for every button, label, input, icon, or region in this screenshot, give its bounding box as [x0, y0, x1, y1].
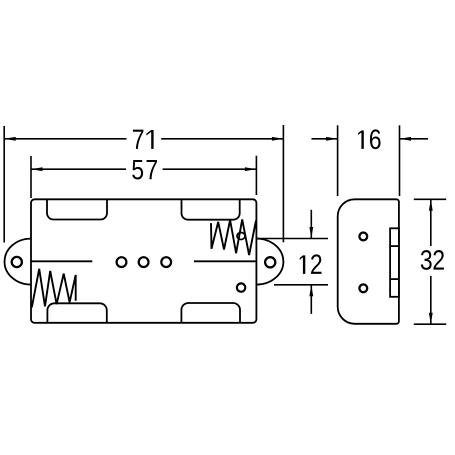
dim 32 top arrow — [429, 199, 433, 211]
dim 16 right arrow (outside) — [400, 138, 429, 140]
bottom-left battery slot — [47, 303, 106, 323]
dim 16 right extension line — [399, 125, 401, 196]
dim 32 line — [430, 199, 432, 246]
dim text 32 — [421, 250, 432, 270]
dim 71 left arrow — [4, 137, 16, 141]
dim text 57 — [132, 160, 143, 180]
dim 57 left extension line — [30, 156, 32, 198]
dim 71 right extension line — [282, 125, 284, 242]
centre hole 3 — [161, 257, 171, 267]
dim 57 line — [31, 168, 126, 170]
dim text 16 — [358, 131, 364, 149]
dim text 71 — [133, 130, 143, 149]
bottom-right battery slot — [181, 303, 240, 323]
side view lower hole — [359, 284, 367, 292]
dim 32 bottom extension line — [414, 323, 446, 325]
battery holder body (top view) — [31, 199, 256, 322]
centre separator line right segment — [194, 260, 256, 262]
dim 12 top arrow (outside, pointing down) — [310, 210, 312, 239]
dim 32 top extension line — [414, 198, 446, 200]
centre separator line left segment — [31, 260, 92, 262]
centre hole 2 — [139, 257, 149, 267]
dim 16 left extension line — [337, 125, 339, 196]
dim 57 right arrow — [245, 167, 257, 171]
dim 16 left arrow (outside) — [312, 138, 338, 140]
top-left battery slot — [47, 199, 107, 219]
strip divider lower — [390, 278, 399, 280]
right mounting tab — [256, 239, 283, 285]
side view upper hole — [359, 233, 367, 241]
right tab hole — [265, 257, 275, 267]
left mounting tab — [5, 239, 31, 285]
top-right battery slot — [182, 199, 240, 219]
dim text 12 — [300, 255, 306, 274]
small hole lower right of body — [237, 283, 245, 291]
strip divider upper — [390, 245, 399, 247]
dim 12 bottom arrow (outside, pointing up) — [310, 285, 312, 314]
dim 12 bottom extension line — [274, 284, 328, 286]
dim 32 bottom arrow — [429, 313, 433, 325]
left tab hole — [12, 257, 22, 267]
spring wire loop — [237, 233, 245, 240]
dim 57 right extension line — [255, 156, 257, 195]
side view body — [338, 199, 399, 323]
bottom-left spring — [32, 269, 76, 308]
dim 71 right arrow — [272, 137, 284, 141]
dim 71 left extension line — [3, 126, 5, 243]
side view contact strip — [390, 228, 399, 296]
dim 71 line — [4, 138, 126, 140]
top-right spring — [211, 219, 256, 255]
dim 57 left arrow — [31, 167, 43, 171]
dim 12 top extension line — [257, 238, 329, 240]
centre hole 1 — [117, 257, 127, 267]
